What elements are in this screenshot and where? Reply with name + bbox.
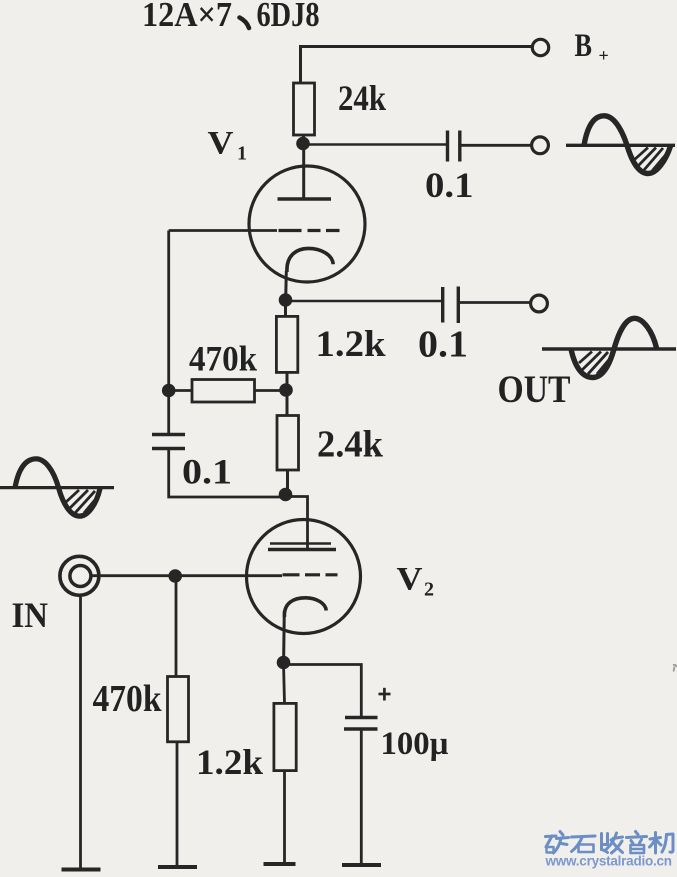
terminal OUT (531, 295, 548, 312)
V2 grid lead wire (91, 574, 282, 577)
svg-text:100µ: 100µ (381, 726, 449, 762)
stray mark right edge (673, 665, 677, 672)
V2 plate bar (268, 548, 336, 552)
wire node4 to 100u cap (284, 665, 362, 718)
svg-text:0.1: 0.1 (425, 165, 474, 205)
wire grid branch vertical (167, 231, 170, 391)
wire left node to C3 (167, 391, 170, 435)
terminal B+ (532, 39, 548, 55)
wire 470k to left node (169, 389, 192, 392)
capacitor C1 0.1 (448, 131, 460, 162)
svg-text:470k: 470k (93, 678, 163, 720)
wire cathode to C2 (286, 300, 442, 303)
terminal output top (532, 137, 549, 154)
V2 grid dashed (283, 573, 339, 576)
resistor 1.2k cathode V2 (274, 703, 296, 770)
triode V2 envelope (247, 520, 361, 634)
svg-text:470k: 470k (189, 339, 257, 379)
svg-text:1.2k: 1.2k (316, 324, 386, 365)
sine wave symbol top output (566, 116, 675, 174)
wire 1.2k to node2 (286, 372, 289, 390)
triode V1 envelope (249, 166, 365, 282)
svg-text:V: V (208, 126, 234, 162)
wire 2.4k to node3 (286, 470, 289, 495)
node divider (279, 383, 293, 397)
wire IN connector down to ground (79, 595, 82, 868)
capacitor C2 0.1 (443, 287, 459, 324)
wire node to 1.2k (284, 301, 287, 316)
label B+ (575, 28, 609, 66)
svg-text:V: V (397, 562, 423, 598)
wire node2 to 2.4k (286, 391, 289, 416)
svg-text:www.crystalradio.cn: www.crystalradio.cn (545, 854, 673, 869)
svg-text:6DJ8: 6DJ8 (257, 0, 320, 34)
sine wave symbol IN (0, 459, 114, 516)
capacitor C3 0.1 left (152, 435, 185, 449)
svg-text:24k: 24k (338, 78, 386, 118)
wire C3 down and right to node3 (169, 449, 286, 498)
wire node2 to 470k (255, 389, 287, 392)
wire 100u to ground (360, 729, 363, 864)
node grid V2 (168, 569, 182, 583)
capacitor 100u electrolytic (344, 718, 378, 730)
ground IN (62, 868, 101, 872)
wire node grid down to 470k (175, 576, 178, 677)
ground 100u (342, 863, 381, 867)
V1 plate bar (278, 197, 332, 201)
node plate V1 (296, 137, 310, 151)
svg-text:+: + (599, 46, 609, 66)
svg-text:B: B (575, 28, 593, 64)
label V1 (208, 126, 248, 165)
sine wave symbol OUT (inverted) (542, 318, 676, 377)
connector IN (60, 556, 99, 595)
node3 plate V2 (279, 488, 293, 502)
wire B+ rail horizontal (301, 47, 533, 84)
V1 cathode lead (284, 271, 288, 299)
svg-text:2: 2 (424, 579, 434, 601)
svg-text:1: 1 (237, 143, 247, 165)
V2 cathode lead (282, 611, 286, 662)
ground 470k (158, 865, 197, 869)
label polarity + (379, 688, 391, 701)
resistor 1.2k cathode V1 (276, 316, 297, 372)
svg-text:1.2k: 1.2k (196, 742, 263, 782)
node cathode V2 (277, 656, 291, 670)
svg-text:OUT: OUT (498, 368, 571, 411)
V2 cathode (284, 598, 326, 617)
V1 grid dashed (279, 229, 340, 232)
node cathode V1 (279, 293, 293, 307)
label V2 (397, 562, 435, 601)
V1 grid lead wire (169, 229, 277, 232)
wire 470k to ground (176, 742, 179, 866)
wire C1 to terminal (461, 144, 532, 147)
resistor 2.4k (277, 416, 299, 471)
V1 plate lead (302, 145, 305, 200)
V2 plate bar upper stroke (270, 542, 331, 544)
resistor 24k (294, 83, 315, 135)
svg-text:IN: IN (12, 595, 49, 635)
wire node to coupling cap C1 (303, 143, 446, 146)
svg-text:2.4k: 2.4k (317, 424, 384, 466)
wire node3 to V2 plate (286, 497, 308, 549)
svg-text:0.1: 0.1 (182, 452, 232, 492)
resistor 470k feedback (192, 380, 255, 403)
V1 cathode (287, 248, 333, 272)
wire node4 down to 1.2k (284, 663, 285, 704)
resistor 470k grid (168, 677, 189, 742)
svg-text:12A×7: 12A×7 (142, 0, 232, 34)
node left (162, 384, 176, 398)
wire 1.2k to ground (283, 771, 286, 863)
svg-text:0.1: 0.1 (418, 324, 468, 366)
ground 1.2k (264, 862, 296, 866)
wire C2 to OUT terminal (460, 301, 531, 304)
value label tube types 12AX7 / 6DJ8 (142, 0, 320, 34)
wire resistor to node (302, 135, 305, 145)
watermark crystalradio logo (546, 832, 674, 854)
